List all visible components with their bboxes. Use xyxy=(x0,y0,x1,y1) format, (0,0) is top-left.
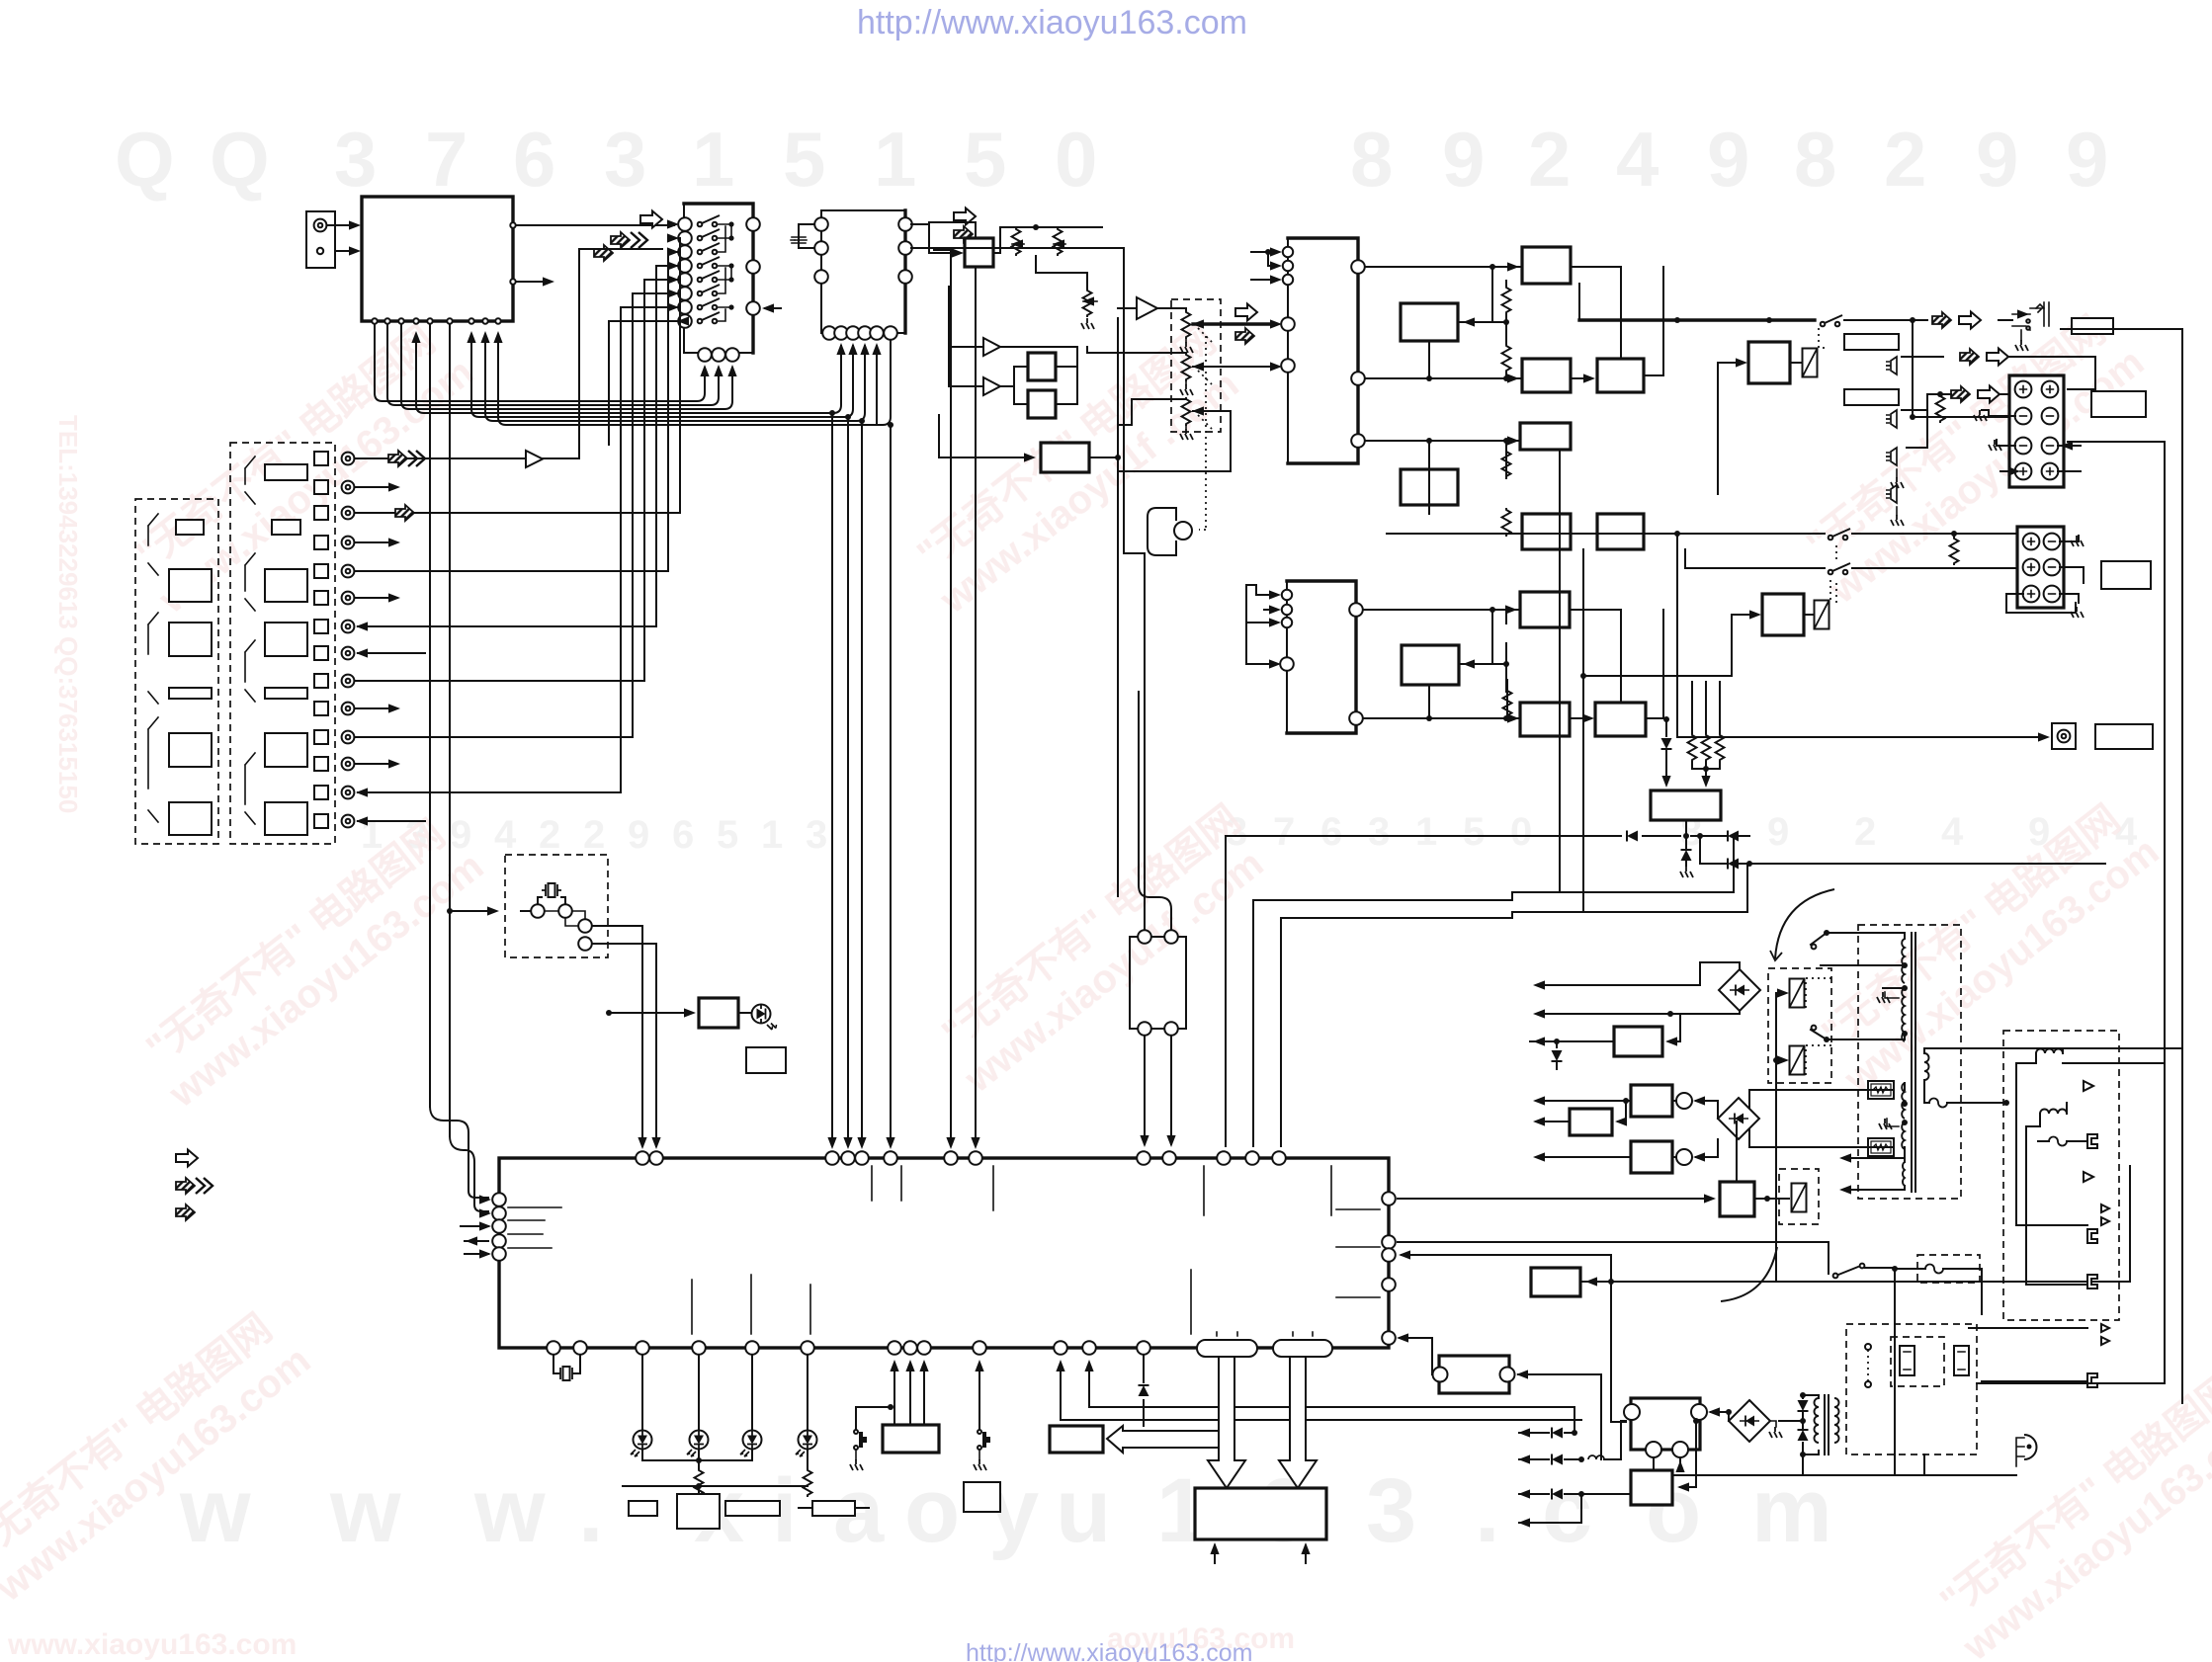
riser row11 xyxy=(632,433,634,737)
feed resistor R602 xyxy=(1950,537,1959,565)
open arrow out 2 xyxy=(1978,386,1999,403)
svg-text:1: 1 xyxy=(1415,810,1437,854)
antenna pin 2 xyxy=(317,248,323,254)
long right rail xyxy=(2165,329,2182,1403)
tertiary winding xyxy=(1903,1162,1905,1186)
bridge3 ground xyxy=(1769,1421,1782,1438)
speaker icon 1 xyxy=(1886,357,1897,374)
arrows into PLL bottom pins xyxy=(836,343,881,364)
big dashed mains box xyxy=(1846,1324,1977,1454)
wire to LED driver xyxy=(606,1010,612,1016)
trim resistor R201 xyxy=(1011,227,1024,256)
jack row 3 wire with hatch arrow xyxy=(355,512,680,514)
osc circles xyxy=(531,904,545,918)
switch matrix bottom pins xyxy=(698,348,739,362)
tuner AGC pin xyxy=(510,279,515,284)
panel1 bracket marks xyxy=(148,514,158,822)
primary feed wires xyxy=(1821,933,1905,1039)
headphone mute switch xyxy=(1821,315,1842,326)
svg-text:o: o xyxy=(904,1460,960,1561)
wire to phono jack xyxy=(1677,736,2046,738)
stub lines below top pins xyxy=(872,1166,1204,1215)
wire to terminal row1 xyxy=(1927,393,2009,395)
resistor R301 xyxy=(1502,286,1511,314)
speaker icon 4 xyxy=(1886,485,1904,526)
panel1 rect b xyxy=(169,569,212,602)
svg-text:0: 0 xyxy=(1055,116,1097,203)
arrow into relay drive box xyxy=(1398,1198,1711,1200)
coupler output arrows xyxy=(1533,1096,1631,1161)
svg-text:1: 1 xyxy=(761,813,783,857)
riser row7 xyxy=(655,421,657,626)
svg-text:TEL:13943229613 QQ:376315150: TEL:13943229613 QQ:376315150 xyxy=(53,415,83,813)
secondary winding xyxy=(1902,1083,1905,1119)
svg-text:4: 4 xyxy=(1616,116,1659,203)
wires volume IC1 row3 xyxy=(1365,441,1518,478)
bridge rectifier 1 xyxy=(1719,969,1760,1011)
wire to K602 xyxy=(1583,615,1732,676)
wire from MCU to AC switch xyxy=(1398,1242,1829,1274)
svg-text:2: 2 xyxy=(1884,116,1926,203)
svg-text:http://www.xiaoyu163.com: http://www.xiaoyu163.com xyxy=(857,4,1247,42)
chevron hatch arrow FM xyxy=(611,232,630,248)
legend open arrow xyxy=(176,1150,198,1167)
out box C3 xyxy=(1595,703,1646,736)
switch matrix left pins xyxy=(678,217,692,328)
svg-text:4: 4 xyxy=(494,813,517,857)
vertical feeds from amp grid xyxy=(1560,450,1583,912)
tuner output pin xyxy=(510,222,515,227)
junction dots on feed xyxy=(1674,317,1680,323)
arrows into switch matrix rows xyxy=(667,233,689,325)
primary winding lower xyxy=(1902,988,1905,1041)
panel2 rect a xyxy=(265,464,307,480)
bridge rectifier 2 xyxy=(1718,1098,1759,1139)
standby transformer T902 xyxy=(1815,1395,1839,1454)
arrows into volume IC2 xyxy=(1246,585,1281,669)
wire to speaker terminal top xyxy=(2008,357,2095,389)
arrows into tuner pins xyxy=(411,331,420,343)
drive box A5 xyxy=(1520,592,1570,627)
panel1 rect c xyxy=(169,623,212,656)
corridor to switch matrix pin1 xyxy=(375,324,705,401)
svg-text:7: 7 xyxy=(1273,810,1295,854)
jack row 1 wire with chevron arrow to buffer xyxy=(355,457,524,459)
jack row 14 input arrow xyxy=(358,820,425,822)
panel2 rect g xyxy=(265,802,307,835)
headphone relay xyxy=(1803,349,1818,377)
osc wiring xyxy=(521,897,565,911)
LED driver box xyxy=(699,998,738,1028)
buffer amp U201 xyxy=(1137,297,1157,319)
main transformer dashed outline xyxy=(1858,925,1961,1199)
IR box pins xyxy=(1138,930,1151,944)
EQ box B3 xyxy=(1402,645,1459,685)
accessory wiring xyxy=(2016,1048,2067,1285)
wires box1 to MCU xyxy=(894,1364,924,1425)
standby label box xyxy=(746,1047,786,1073)
relay 4 xyxy=(1792,1184,1807,1212)
jack row 7 wire input xyxy=(358,625,656,627)
corridor to switch matrix pin2 xyxy=(387,324,719,405)
out box C2 xyxy=(1597,514,1644,549)
accessory connector f1 xyxy=(2038,1134,2097,1148)
AC plug xyxy=(2016,1435,2037,1466)
terminal block1 row1 xyxy=(2015,381,2032,398)
drive box A4 xyxy=(1522,514,1571,549)
jack row 11 wire xyxy=(355,736,633,738)
switch matrix block S101 xyxy=(684,204,753,353)
svg-text:1: 1 xyxy=(692,116,734,203)
speaker A label xyxy=(2091,391,2146,417)
relay drive box xyxy=(1720,1182,1754,1216)
svg-text:2: 2 xyxy=(1528,116,1571,203)
reset box xyxy=(1050,1426,1103,1453)
clamp diode to ground xyxy=(1680,839,1693,877)
pin stub lines inside MCU xyxy=(508,1207,561,1248)
pot 2 xyxy=(1180,353,1204,395)
accessory connector 3 xyxy=(2087,1275,2097,1288)
bridge2 connects xyxy=(1748,1090,1750,1147)
antenna jack pin xyxy=(314,219,327,232)
wire antenna to tuner pin1 xyxy=(328,224,356,226)
tertiary arrows xyxy=(1839,1153,1905,1194)
wires to surround block rows xyxy=(1387,534,1825,737)
label rect small 3 xyxy=(725,1501,780,1516)
volume IC2 right pins xyxy=(1349,603,1363,725)
svg-text:c: c xyxy=(1542,1460,1592,1561)
wire from muting box down to bus xyxy=(1685,820,1687,839)
riser row1 xyxy=(579,249,662,458)
wire box to relay xyxy=(1790,362,1802,364)
PLL left pins xyxy=(814,217,828,284)
arrows up into bottom pins xyxy=(700,365,736,390)
aux label box xyxy=(964,1482,1000,1512)
surround switch 2 xyxy=(1829,563,1850,574)
buffer box after PLL xyxy=(965,238,993,267)
dashed volume pot box xyxy=(1171,299,1221,432)
corridor to switch matrix pin3 xyxy=(401,324,732,409)
svg-text:0: 0 xyxy=(1510,810,1532,854)
standby supply box xyxy=(1624,1398,1707,1457)
svg-text:8: 8 xyxy=(1794,116,1836,203)
svg-text:5: 5 xyxy=(783,116,825,203)
pot wiper dashes xyxy=(1198,328,1212,429)
right pin stubs inside xyxy=(1336,1209,1380,1297)
wire power control source xyxy=(1580,1166,2130,1282)
right accessory dashed box xyxy=(2003,1031,2119,1320)
thermal fuse lower xyxy=(1868,1138,1894,1156)
open arrow after PLL xyxy=(954,208,976,225)
standby regulator box xyxy=(1631,1470,1672,1505)
wire to MCU standby pin xyxy=(1402,1254,1611,1256)
dashed between switches xyxy=(1835,545,1837,605)
lower buffer box xyxy=(1041,443,1089,472)
antenna connector CN101 xyxy=(306,211,335,268)
relay driver box K602 xyxy=(1762,594,1804,635)
IR outputs to MCU xyxy=(1145,1036,1171,1144)
svg-text:3: 3 xyxy=(806,813,827,857)
headphone jack J601 xyxy=(2012,302,2049,351)
panel1 rect f xyxy=(169,802,212,835)
line switch circles xyxy=(1865,1344,1871,1387)
svg-text:5: 5 xyxy=(1463,810,1485,854)
primary taps xyxy=(1902,962,1908,968)
jack panel dashed box xyxy=(230,443,335,844)
stub lines above bottom pins xyxy=(692,1270,1191,1334)
PLL IC102 xyxy=(821,210,905,333)
resistor-box symbol xyxy=(799,1501,869,1516)
zener diode xyxy=(1552,1050,1563,1069)
primary winding upper xyxy=(1902,939,1905,983)
accessory triangles xyxy=(2084,1081,2109,1225)
svg-text:3: 3 xyxy=(334,116,377,203)
wire jumper to MCU pin xyxy=(1400,1338,1432,1374)
power control junction xyxy=(1608,1279,1614,1285)
svg-text:3: 3 xyxy=(1368,810,1390,854)
drive box A6 xyxy=(1520,703,1570,736)
bus diode D901 xyxy=(1627,831,1638,842)
regulator1 wires xyxy=(1530,1014,1680,1047)
LED resistor R905 xyxy=(695,1468,704,1497)
MCU bottom pins xyxy=(547,1341,1150,1355)
wires pot2 pot3 to volume IC xyxy=(1087,347,1186,425)
regulator box 2 xyxy=(1570,1109,1612,1135)
X-cap 2 xyxy=(1954,1346,1969,1375)
regulator box 1 xyxy=(1614,1027,1662,1056)
out box C1 xyxy=(1597,359,1644,392)
terminal block2 row2 xyxy=(2023,559,2040,576)
panel1 rect d xyxy=(169,688,212,699)
dashed relay to switch xyxy=(1819,326,1829,348)
wires volume IC1 row2 xyxy=(1365,341,1522,378)
display connector pill 2 xyxy=(1273,1340,1332,1357)
switch matrix internal switches xyxy=(698,215,734,323)
speaker B label xyxy=(2101,561,2151,589)
drive box A1 xyxy=(1522,247,1571,284)
EQ box B1 xyxy=(1401,303,1458,341)
surround switch 1 xyxy=(1829,529,1850,540)
resistor R302 xyxy=(1502,344,1511,373)
ground under R203 xyxy=(1081,318,1094,329)
corridor to PLL pin b2 xyxy=(416,336,841,413)
panel2 rect b xyxy=(272,520,300,535)
primary ground tap xyxy=(1877,992,1899,1003)
accessory coil 1 xyxy=(2036,1049,2063,1054)
open arrow to switch matrix xyxy=(640,211,662,228)
terminal block1 row4 xyxy=(2015,463,2032,480)
svg-text:9: 9 xyxy=(1442,116,1485,203)
block2 grounds xyxy=(2006,536,2084,618)
wire standby box to MCU sense xyxy=(1518,1374,1601,1459)
pin header squares xyxy=(314,452,328,828)
cap dashed box xyxy=(1891,1337,1944,1386)
plug connector bar 1 xyxy=(1844,334,1899,350)
svg-text:3: 3 xyxy=(604,116,646,203)
hatch arrow before volume IC xyxy=(1235,328,1254,344)
nested bus drops to MCU xyxy=(1225,836,1227,1146)
speaker icon 3 xyxy=(1886,448,1904,488)
arrow into right pin xyxy=(765,307,781,309)
relay cluster dashed xyxy=(1768,968,1831,1083)
arrow into regulator2 xyxy=(1618,1121,1626,1122)
arrows into volume IC1 xyxy=(1251,247,1282,284)
LED1 xyxy=(641,1355,643,1430)
wire PLL to buffer xyxy=(911,224,939,253)
svg-text:5: 5 xyxy=(717,813,738,857)
drive box A2 xyxy=(1522,359,1571,392)
accessory connector 4 xyxy=(2087,1373,2097,1387)
LED return rail xyxy=(623,1486,808,1497)
push switch SW2 xyxy=(974,1360,990,1470)
svg-text:w: w xyxy=(179,1460,251,1561)
drive box A3 xyxy=(1520,423,1571,450)
jack row 5 wire xyxy=(355,570,668,572)
sense jumper box xyxy=(1433,1356,1515,1393)
crystal X901 xyxy=(542,883,561,897)
push switch SW1 xyxy=(850,1404,893,1470)
dashed drop from pot box xyxy=(1199,336,1206,530)
label rect small 2 xyxy=(677,1494,720,1529)
top bias rail xyxy=(911,224,1102,253)
junction dots corridor drops xyxy=(829,410,835,416)
phono out jack xyxy=(2052,723,2076,749)
standby box bottom wires xyxy=(1654,1459,1680,1475)
rectifier diodes at T902 xyxy=(1779,1392,1819,1457)
key matrix box 1 xyxy=(883,1425,939,1453)
bridge1 output arrows xyxy=(1533,962,1740,1019)
pot 3 xyxy=(1180,397,1204,440)
jack row 13 wire input xyxy=(358,791,621,793)
svg-text:http://www.xiaoyu163.com: http://www.xiaoyu163.com xyxy=(966,1639,1252,1662)
MCU left pins xyxy=(492,1193,506,1261)
arrows into MCU top pins xyxy=(827,1137,979,1149)
open arrow out 1 xyxy=(1987,349,2008,366)
accessory wires right xyxy=(2016,1225,2087,1285)
riser row9 xyxy=(643,427,645,681)
terminal wires and grounds xyxy=(1974,410,2081,476)
power detect diode xyxy=(1139,1355,1149,1426)
arrow into lower buffer xyxy=(986,457,1031,458)
terminal block2 row3 xyxy=(2023,586,2040,603)
svg-text:www.xiaoyu163.com: www.xiaoyu163.com xyxy=(7,1628,297,1661)
wire box to relay4 xyxy=(1754,1198,1789,1200)
svg-text:9: 9 xyxy=(1707,116,1749,203)
dashed relay2 to switches xyxy=(1829,577,1831,600)
relay driver box K601 xyxy=(1748,342,1790,383)
relay 4 dashed xyxy=(1779,1169,1819,1224)
secondary center ground xyxy=(1879,1119,1899,1129)
wire rail down to level resistor xyxy=(1036,256,1087,289)
LED4 xyxy=(807,1355,808,1430)
tuner block IC101 xyxy=(362,197,513,321)
EQ box B2 xyxy=(1401,469,1458,505)
arrow into power control xyxy=(1588,1281,1611,1283)
svg-text:6: 6 xyxy=(672,813,694,857)
arrow into osc xyxy=(447,908,453,914)
wire amp to pot1 xyxy=(1157,308,1186,310)
osc outputs to MCU clock pins xyxy=(592,926,656,1146)
accessory coil 2 xyxy=(2040,1110,2067,1115)
level resistor R203 xyxy=(1082,289,1097,317)
svg-text:8: 8 xyxy=(1350,116,1393,203)
small box pair a xyxy=(1028,353,1056,380)
jack row 8 input arrow xyxy=(358,652,425,654)
wire feed to relay driver xyxy=(1717,363,1719,494)
coupler box 2 xyxy=(1631,1139,1718,1173)
legend chevron hatch arrow xyxy=(176,1178,213,1194)
RCA jacks column xyxy=(342,453,355,828)
volume IC1 right pins xyxy=(1351,260,1365,448)
terminal block1 row2 xyxy=(2015,408,2032,425)
corridor to PLL pin b3 xyxy=(471,336,853,417)
svg-text:2: 2 xyxy=(583,813,605,857)
fuse dashed box xyxy=(1917,1255,1980,1283)
motor loop xyxy=(1148,508,1176,555)
MCU top pins xyxy=(636,1151,1286,1165)
svg-text:.: . xyxy=(1475,1460,1500,1561)
LED resistor R906 xyxy=(804,1450,812,1497)
LED common wire xyxy=(642,1450,752,1468)
AC power switch xyxy=(1833,1264,1898,1279)
bold headphone feed line xyxy=(1579,267,1663,320)
muting transistor box xyxy=(1651,790,1721,820)
left output diode row 1 xyxy=(1518,1407,1577,1439)
wire row2 buffer chain xyxy=(983,338,1000,356)
PLL load capacitor xyxy=(791,224,814,248)
jack row 9 wire xyxy=(355,680,644,682)
svg-text:w: w xyxy=(473,1460,546,1561)
regulator2 out xyxy=(1538,1121,1570,1122)
display connector pill 1 xyxy=(1197,1340,1257,1357)
pill top ticks xyxy=(1217,1332,1313,1336)
wires volume IC1 row1 xyxy=(1365,267,1522,322)
buffer op-amp row1 xyxy=(526,451,543,467)
panel2 bracket marks xyxy=(245,457,255,824)
IR feed vertical xyxy=(911,248,1145,930)
terminal block 2 xyxy=(2017,527,2064,608)
line fuse xyxy=(1929,1099,1947,1108)
wires speaker icons xyxy=(1902,357,1943,448)
diode pair to power rail xyxy=(1700,831,2105,870)
jack row 6 arrow xyxy=(355,597,395,599)
aux winding right xyxy=(1924,1053,1929,1080)
bottom mains rail xyxy=(1654,1421,2016,1475)
svg-text:9: 9 xyxy=(1976,116,2018,203)
corridor to PLL pin b4 xyxy=(485,336,865,421)
panel2 rect d xyxy=(265,623,307,656)
X-cap 1 xyxy=(1900,1346,1914,1375)
riser row13 xyxy=(620,439,622,792)
plug connector bar 2 xyxy=(1844,389,1899,405)
panel2 rect c xyxy=(265,569,307,602)
svg-text:7: 7 xyxy=(425,116,468,203)
bridge rectifier 3 xyxy=(1729,1400,1770,1442)
corridor to PLL pin b6 xyxy=(498,336,891,425)
arrow into regulator1 xyxy=(1668,1040,1680,1042)
hatch arrow out 1 xyxy=(1960,349,1979,365)
svg-text:1: 1 xyxy=(874,116,916,203)
jack row 12 arrow xyxy=(355,763,395,765)
svg-text:u: u xyxy=(1056,1460,1111,1561)
legend hatch arrow xyxy=(176,1205,195,1220)
protection diode cluster xyxy=(1661,682,1725,788)
display drive hollow arrow 1 xyxy=(1208,1357,1245,1488)
wires power rails into MCU bottom xyxy=(1061,1364,1581,1420)
hatch arrow out 2 xyxy=(1951,386,1970,402)
wire antenna to tuner pin2 xyxy=(335,250,356,252)
wire switch to jack xyxy=(1844,319,2012,321)
